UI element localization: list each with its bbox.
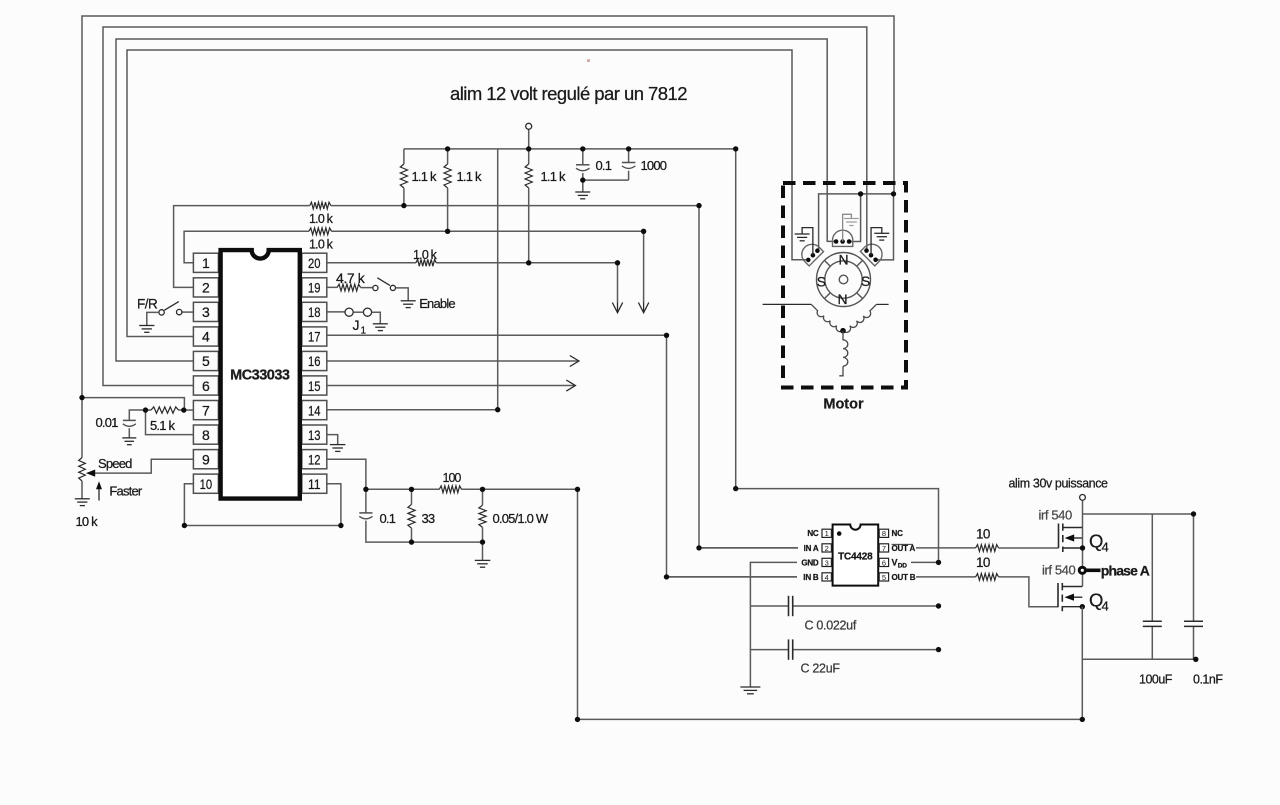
- svg-text:6: 6: [882, 558, 886, 567]
- svg-text:C 0.022uf: C 0.022uf: [805, 619, 857, 633]
- svg-text:C 22uF: C 22uF: [801, 662, 841, 676]
- svg-text:IN B: IN B: [803, 573, 819, 582]
- svg-text:12: 12: [308, 451, 321, 467]
- svg-text:7: 7: [882, 544, 886, 553]
- svg-text:NC: NC: [892, 529, 904, 538]
- svg-text:1000: 1000: [641, 158, 667, 173]
- svg-text:0.05/1.0 W: 0.05/1.0 W: [493, 511, 549, 526]
- svg-text:1.1 k: 1.1 k: [541, 169, 566, 184]
- svg-text:5: 5: [882, 573, 886, 582]
- svg-text:IN A: IN A: [804, 544, 819, 553]
- svg-text:100uF: 100uF: [1139, 673, 1173, 687]
- svg-text:17: 17: [308, 329, 321, 345]
- svg-text:19: 19: [308, 280, 321, 296]
- svg-text:1.0 k: 1.0 k: [309, 238, 334, 252]
- svg-text:1.1 k: 1.1 k: [412, 169, 437, 184]
- svg-text:V: V: [892, 557, 898, 567]
- svg-text:0.1: 0.1: [596, 158, 612, 173]
- svg-text:alim 12 volt regulé par un 781: alim 12 volt regulé par un 7812: [450, 83, 687, 104]
- svg-text:4: 4: [202, 329, 210, 345]
- svg-text:alim 30v puissance: alim 30v puissance: [1009, 477, 1109, 491]
- svg-text:7: 7: [202, 402, 210, 418]
- svg-text:NC: NC: [807, 529, 819, 538]
- svg-text:irf 540: irf 540: [1039, 508, 1073, 523]
- svg-text:15: 15: [308, 378, 321, 394]
- svg-text:OUT B: OUT B: [892, 573, 916, 582]
- svg-text:5: 5: [202, 353, 210, 369]
- svg-text:0.1: 0.1: [380, 511, 396, 526]
- svg-text:0.01: 0.01: [96, 415, 119, 430]
- svg-text:2: 2: [825, 544, 829, 553]
- svg-text:1: 1: [202, 255, 210, 271]
- svg-text:TC4428: TC4428: [838, 552, 873, 563]
- svg-text:MC33033: MC33033: [230, 368, 290, 384]
- svg-text:S: S: [817, 274, 826, 290]
- svg-text:1: 1: [825, 529, 829, 538]
- svg-text:Enable: Enable: [419, 296, 455, 311]
- svg-text:13: 13: [308, 427, 321, 443]
- svg-text:S: S: [861, 273, 870, 289]
- svg-text:1.0 k: 1.0 k: [309, 212, 334, 226]
- svg-text:100: 100: [443, 471, 462, 485]
- svg-text:Motor: Motor: [823, 397, 864, 413]
- svg-text:GND: GND: [801, 558, 819, 567]
- svg-text:33: 33: [422, 511, 435, 526]
- svg-text:Speed: Speed: [98, 456, 132, 471]
- svg-text:10: 10: [200, 476, 213, 492]
- svg-text:N: N: [838, 252, 848, 268]
- svg-text:4.7 k: 4.7 k: [336, 270, 366, 286]
- svg-text:11: 11: [308, 476, 321, 492]
- svg-text:5.1 k: 5.1 k: [150, 418, 175, 433]
- svg-text:20: 20: [308, 255, 321, 271]
- svg-text:6: 6: [202, 378, 210, 394]
- svg-text:4: 4: [1102, 599, 1109, 614]
- svg-text:10: 10: [976, 527, 990, 542]
- svg-text:16: 16: [308, 353, 321, 369]
- svg-text:8: 8: [882, 529, 886, 538]
- svg-text:1.1 k: 1.1 k: [457, 169, 482, 184]
- svg-text:Faster: Faster: [109, 484, 143, 499]
- svg-text:0.1nF: 0.1nF: [1193, 673, 1223, 687]
- svg-text:OUT A: OUT A: [892, 544, 916, 553]
- svg-text:9: 9: [202, 451, 210, 467]
- svg-text:8: 8: [202, 427, 210, 443]
- svg-text:10 k: 10 k: [76, 514, 99, 529]
- svg-text:1.0 k: 1.0 k: [413, 248, 438, 262]
- svg-text:18: 18: [308, 304, 321, 320]
- svg-text:N: N: [837, 291, 847, 307]
- svg-text:2: 2: [202, 280, 210, 296]
- svg-text:F/R: F/R: [137, 297, 158, 312]
- svg-text:3: 3: [202, 304, 210, 320]
- svg-text:4: 4: [1102, 540, 1109, 555]
- svg-text:3: 3: [825, 558, 829, 567]
- svg-text:4: 4: [825, 573, 829, 582]
- svg-text:J: J: [353, 317, 360, 333]
- svg-text:14: 14: [308, 402, 321, 418]
- svg-text:phase A: phase A: [1101, 562, 1150, 578]
- svg-text:irf 540: irf 540: [1042, 563, 1076, 578]
- svg-text:10: 10: [976, 555, 990, 570]
- svg-text:DD: DD: [898, 562, 907, 569]
